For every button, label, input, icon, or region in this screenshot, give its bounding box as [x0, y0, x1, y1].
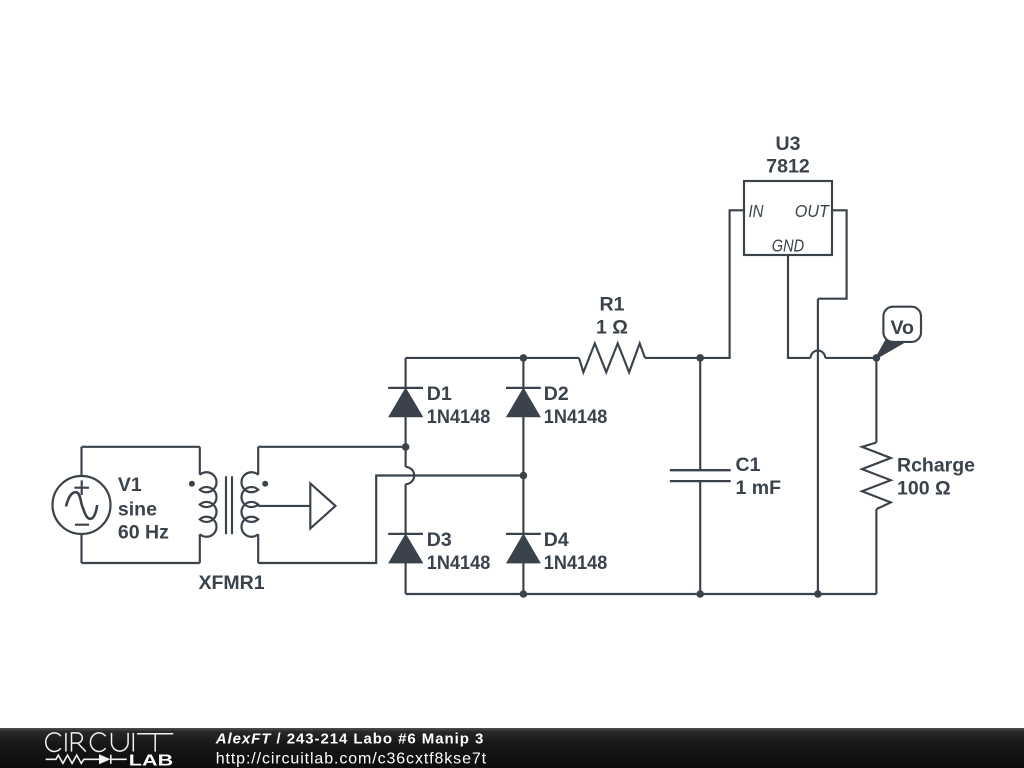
- svg-text:D3: D3: [427, 529, 452, 551]
- svg-text:Vo: Vo: [890, 317, 914, 339]
- svg-text:GND: GND: [772, 235, 805, 255]
- svg-text:D4: D4: [544, 529, 569, 551]
- svg-text:http://circuitlab.com/c36cxtf8: http://circuitlab.com/c36cxtf8kse7t: [216, 750, 487, 767]
- svg-text:60 Hz: 60 Hz: [118, 522, 169, 544]
- svg-text:sine: sine: [118, 499, 157, 521]
- svg-text:AlexFT / 243-214 Labo #6 Manip: AlexFT / 243-214 Labo #6 Manip 3: [215, 731, 484, 748]
- svg-text:D2: D2: [544, 383, 569, 405]
- svg-text:1N4148: 1N4148: [427, 552, 491, 574]
- svg-text:OUT: OUT: [795, 201, 830, 221]
- svg-text:1N4148: 1N4148: [427, 406, 491, 428]
- svg-text:7812: 7812: [766, 155, 810, 177]
- svg-text:IN: IN: [749, 201, 764, 221]
- svg-text:XFMR1: XFMR1: [198, 572, 264, 594]
- svg-text:R1: R1: [600, 294, 625, 316]
- svg-text:100 Ω: 100 Ω: [897, 478, 951, 500]
- svg-text:V1: V1: [118, 474, 142, 496]
- svg-text:1N4148: 1N4148: [544, 552, 608, 574]
- svg-text:LAB: LAB: [129, 752, 173, 768]
- svg-text:Rcharge: Rcharge: [897, 455, 975, 477]
- svg-text:1 Ω: 1 Ω: [596, 316, 628, 338]
- svg-text:1 mF: 1 mF: [736, 477, 782, 499]
- svg-text:1N4148: 1N4148: [544, 406, 608, 428]
- svg-text:U3: U3: [776, 133, 801, 155]
- svg-text:D1: D1: [427, 383, 452, 405]
- svg-text:C1: C1: [736, 454, 761, 476]
